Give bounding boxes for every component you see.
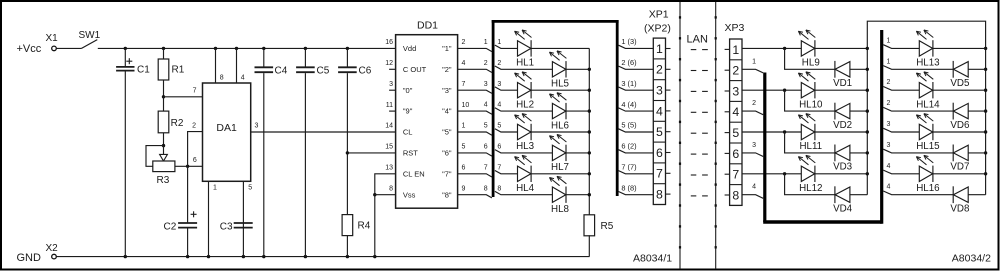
wire HL11 cathode to return bus (815, 131, 867, 133)
svg-text:5: 5 (656, 125, 663, 139)
svg-text:A8034/2: A8034/2 (952, 252, 991, 264)
XP3 pin 5 tick (725, 132, 730, 134)
svg-text:"8": "8" (442, 190, 452, 199)
svg-text:HL8: HL8 (551, 204, 570, 215)
resistor R1 top wire (163, 48, 165, 59)
svg-text:VD7: VD7 (950, 162, 969, 173)
wire VD6 anode to return bus (968, 110, 985, 112)
svg-text:8: 8 (389, 185, 393, 192)
wire DD1 pin 13 to pin 8 to GND (375, 174, 396, 257)
svg-text:VD6: VD6 (950, 120, 970, 131)
op IC DA1 box (203, 83, 251, 181)
wire VD3 anode to return bus (850, 152, 867, 154)
svg-text:2: 2 (656, 63, 663, 77)
svg-text:4: 4 (241, 75, 245, 82)
wire DD1 pin 9 to cable W1 wire 8 (458, 195, 492, 198)
link wire to VD2 (785, 90, 835, 111)
wire HL9 cathode to return bus (815, 47, 867, 49)
wire RST node to DD1 pin 15 (347, 152, 395, 154)
wire HL2 cathode to common bus (531, 89, 589, 91)
capacitor C6 (338, 66, 357, 68)
svg-text:C3: C3 (220, 222, 233, 233)
wire DD1 pin 6 to cable W1 wire 7 (458, 174, 492, 177)
wire VD5 anode to return bus (968, 68, 985, 70)
wire +Vcc rail SW1 to DD1 pin16 (98, 47, 396, 49)
svg-text:1: 1 (213, 185, 217, 192)
svg-text:C4: C4 (275, 66, 288, 77)
junction on GND rail (346, 255, 349, 258)
wire cable W1 to XP1 pin 4 (619, 108, 654, 111)
resistor R1 (158, 59, 169, 80)
junction on GND rail (124, 255, 127, 258)
junction on cathode bus (588, 151, 591, 154)
panel divider right of LAN column (chain line) (715, 2, 717, 269)
node HL12/VD4 split (783, 172, 786, 175)
svg-text:HL9: HL9 (802, 58, 820, 69)
DA1 pin 2 wire (188, 132, 203, 223)
XP1 pin 2 tick (666, 68, 671, 70)
wire DD1 pin 1 to cable W1 wire 5 (458, 132, 492, 135)
LED HL13 (916, 31, 926, 39)
XP1 cell divider (653, 58, 665, 60)
svg-text:1: 1 (484, 39, 488, 46)
junction on module2 return bus (984, 68, 987, 71)
XP3 cell divider (730, 142, 742, 144)
R3 wiper arrow (160, 154, 168, 161)
svg-text:HL7: HL7 (551, 162, 569, 173)
svg-text:VD8: VD8 (950, 204, 970, 215)
wire VD8 anode to return bus (968, 194, 985, 196)
svg-text:5: 5 (484, 123, 488, 130)
svg-text:4: 4 (887, 184, 891, 191)
svg-text:8: 8 (484, 185, 488, 192)
XP1 cell divider (653, 183, 665, 185)
XP1 pin 3 tick (666, 89, 671, 91)
junction on +Vcc rail at DA1 pin8 (214, 47, 217, 50)
wire HL3 cathode to common bus (531, 131, 589, 133)
node Vss/CLEN (373, 193, 376, 196)
junction on module1 return bus (866, 172, 869, 175)
svg-text:HL6: HL6 (551, 120, 570, 131)
cable W2 wire 1 exit to VD5 (883, 66, 953, 70)
junction on module1 return bus (866, 151, 869, 154)
wire DD1 pin 2 to cable W1 wire 1 (458, 48, 492, 51)
svg-text:8: 8 (732, 188, 739, 202)
cable W1 wire 4 exit to LED HL7 (495, 108, 553, 111)
wire DD1 pin 4 to cable W1 wire 2 (458, 69, 492, 72)
diode VD4 (834, 186, 836, 203)
svg-text:6 (2): 6 (2) (621, 142, 636, 151)
svg-text:DA1: DA1 (216, 122, 237, 134)
cable W1 wire 5 exit to LED HL5 (495, 129, 518, 132)
XP1 pin 4 tick (666, 110, 671, 112)
wire cable W1 to XP1 pin 3 (619, 87, 654, 90)
node RST / C6 / R4 (346, 151, 349, 154)
svg-text:(XP2): (XP2) (644, 23, 671, 35)
resistor R2 bottom wire (163, 133, 165, 146)
svg-text:XP1: XP1 (649, 9, 669, 21)
svg-text:HL1: HL1 (516, 58, 534, 69)
svg-text:+Vcc: +Vcc (17, 43, 42, 55)
wire DD1 pin 5 to cable W1 wire 6 (458, 153, 492, 156)
svg-text:VD3: VD3 (833, 162, 853, 173)
DD1 pin 3 NC stub (389, 89, 396, 91)
XP3 pin 3 tick (725, 90, 730, 92)
LED HL3 (515, 115, 525, 123)
cable W2 wire 3 exit to VD7 (883, 149, 953, 153)
svg-text:15: 15 (385, 144, 393, 151)
cable bundle W2 bottom run (763, 220, 882, 223)
svg-text:16: 16 (385, 39, 393, 46)
LED HL8 (550, 178, 560, 186)
resistor R1 bottom wire (163, 80, 165, 97)
XP3 pin 4 tick (725, 111, 730, 113)
wire XP3 pin 6 to cable W2 wire 3 (742, 153, 763, 157)
svg-text:11: 11 (386, 102, 393, 109)
diode VD5 (952, 61, 954, 78)
XP3 cell divider (730, 80, 742, 82)
wire R3 to DA1 pin 6 (175, 165, 203, 167)
junction on module1 return bus (866, 89, 869, 92)
svg-text:"0": "0" (403, 86, 413, 95)
capacitor C5 bottom wire (304, 73, 306, 257)
LAN cable dashed wire 6 (691, 153, 697, 155)
svg-text:2: 2 (192, 122, 196, 129)
DA1 pin 4 stub (236, 48, 238, 83)
svg-text:VD2: VD2 (833, 120, 852, 131)
terminal X2 (52, 254, 57, 259)
wire X1 to SW1 (57, 47, 82, 49)
junction on cathode bus (588, 172, 591, 175)
svg-text:C1: C1 (137, 65, 150, 76)
svg-text:R4: R4 (358, 221, 371, 232)
svg-text:8: 8 (497, 185, 501, 192)
svg-text:6: 6 (193, 157, 197, 164)
svg-text:6: 6 (497, 144, 501, 151)
svg-text:VD5: VD5 (950, 78, 970, 89)
capacitor C1 top wire (124, 48, 126, 67)
common cathode bus wire (588, 48, 590, 214)
junction on module1 return bus (866, 47, 869, 50)
node R1/R2/pin7 (162, 95, 165, 98)
svg-text:HL4: HL4 (516, 183, 535, 194)
svg-text:3: 3 (887, 142, 891, 149)
XP1 pin 1 tick (666, 48, 671, 50)
connector XP3 body (730, 39, 742, 205)
svg-text:2: 2 (887, 79, 891, 86)
svg-text:1: 1 (656, 42, 663, 56)
svg-text:C2: C2 (164, 222, 177, 233)
wire XP3 pin 3 to HL10 (742, 89, 801, 91)
XP1 pin 6 tick (666, 152, 671, 154)
diode VD6 (952, 103, 954, 120)
svg-text:"3": "3" (442, 86, 452, 95)
diode VD8 (952, 186, 954, 203)
svg-text:3: 3 (752, 142, 756, 149)
XP3 pin 1 tick (725, 48, 730, 50)
svg-text:R3: R3 (157, 175, 170, 186)
svg-text:1: 1 (497, 39, 501, 46)
cable W2 wire 4 exit to HL16 (883, 170, 919, 174)
svg-text:"1": "1" (442, 44, 452, 53)
capacitor C4 bottom wire (263, 73, 265, 257)
DA1 pin 8 stub (215, 48, 217, 83)
svg-text:5: 5 (732, 126, 739, 140)
wire HL12 cathode to return bus (815, 173, 867, 175)
svg-text:2: 2 (497, 60, 501, 67)
wire cable W1 to XP1 pin 1 (619, 45, 654, 48)
svg-text:3: 3 (887, 121, 891, 128)
svg-text:C OUT: C OUT (403, 65, 427, 74)
wire cable W1 to XP1 pin 6 (619, 150, 654, 153)
wire DA1 pin 3 to DD1 pin 14 (251, 131, 396, 133)
XP3 cell divider (730, 59, 742, 61)
XP1 cell divider (653, 79, 665, 81)
junction on +Vcc rail at R1 (162, 47, 165, 50)
return bus wire module1 to module2 (867, 21, 985, 195)
junction on +Vcc rail at DA1 pin4 (235, 47, 238, 50)
svg-text:3: 3 (497, 81, 501, 88)
junction on GND rail (186, 255, 189, 258)
wire HL16 cathode to return bus (933, 173, 986, 175)
LAN cable dashed wire 7 (691, 174, 697, 176)
svg-text:LAN: LAN (687, 34, 708, 46)
svg-text:X2: X2 (46, 243, 59, 254)
junction on +Vcc rail at C5 (304, 47, 307, 50)
junction on GND rail (207, 255, 210, 258)
svg-text:HL10: HL10 (799, 99, 823, 110)
svg-text:"5": "5" (442, 128, 452, 137)
wire HL8 cathode to common bus (566, 194, 590, 196)
capacitor C2 bottom wire (187, 229, 189, 257)
svg-text:C6: C6 (359, 66, 372, 77)
cable W1 wire 8 exit to LED HL11 (495, 191, 553, 194)
LAN cable dashed wire 2 (691, 70, 697, 72)
cable bundle W2 left run (763, 73, 766, 223)
junction on module2 return bus (984, 151, 987, 154)
panel divider left of LAN column (chain line) (679, 2, 681, 269)
svg-text:4: 4 (752, 184, 756, 191)
diode VD2 (834, 103, 836, 120)
svg-text:2: 2 (752, 100, 756, 107)
svg-text:4 (4): 4 (4) (621, 100, 636, 109)
DA1 pin 1 wire to GND (208, 181, 210, 256)
LED HL16 (916, 157, 926, 165)
cable W2 wire 1 exit to HL13 (883, 45, 919, 49)
junction on GND rail (242, 255, 245, 258)
svg-text:3: 3 (732, 84, 739, 98)
wire cable W1 to XP1 pin 5 (619, 129, 654, 132)
svg-text:"6": "6" (442, 149, 452, 158)
svg-text:10: 10 (462, 102, 470, 109)
junction on module1 return bus (866, 130, 869, 133)
wire XP3 pin 2 to cable W2 wire 1 (742, 69, 763, 73)
svg-text:CL EN: CL EN (403, 169, 425, 178)
capacitor C6 top wire (346, 48, 348, 67)
node HL10/VD2 split (783, 89, 786, 92)
capacitor C2 polarity + (191, 213, 197, 215)
LED HL1 (515, 31, 525, 39)
wire cable W1 to XP1 pin 7 (619, 171, 654, 174)
svg-text:RST: RST (403, 149, 418, 158)
svg-text:3: 3 (484, 81, 488, 88)
svg-text:3: 3 (255, 122, 259, 129)
LED HL14 (916, 73, 926, 81)
svg-text:HL3: HL3 (516, 141, 535, 152)
svg-text:HL16: HL16 (916, 183, 940, 194)
LED HL7 (550, 136, 560, 144)
capacitor C2 (178, 222, 197, 224)
svg-text:GND: GND (17, 252, 42, 264)
svg-text:HL15: HL15 (916, 141, 940, 152)
wire VD4 anode to return bus (850, 194, 867, 196)
wire HL1 cathode to common bus (531, 47, 589, 49)
cable W1 wire 1 exit to LED HL1 (495, 45, 518, 48)
svg-text:6: 6 (484, 144, 488, 151)
svg-text:8: 8 (220, 75, 224, 82)
XP3 pin 2 tick (725, 69, 730, 71)
link wire to VD4 (785, 174, 835, 195)
svg-text:1: 1 (462, 123, 466, 130)
svg-text:13: 13 (385, 165, 393, 172)
svg-text:3: 3 (389, 81, 393, 88)
LED HL6 (550, 94, 560, 102)
svg-text:4: 4 (497, 102, 501, 109)
svg-text:2: 2 (732, 64, 739, 78)
wire VD1 anode to return bus (850, 68, 867, 70)
XP1 pin 8 tick (666, 193, 671, 195)
svg-text:HL5: HL5 (551, 79, 570, 90)
svg-text:"9": "9" (403, 107, 413, 116)
XP1 cell divider (653, 100, 665, 102)
XP3 cell divider (730, 184, 742, 186)
resistor R4 (342, 215, 353, 236)
wire DD1 pin 10 to cable W1 wire 4 (458, 111, 492, 114)
svg-text:HL13: HL13 (916, 58, 940, 69)
wire HL4 cathode to common bus (531, 173, 589, 175)
wire to DA1 pin 7 (164, 96, 203, 98)
svg-text:DD1: DD1 (417, 20, 438, 32)
XP1 pin 7 tick (666, 172, 671, 174)
svg-text:"4": "4" (442, 107, 452, 116)
svg-text:VD1: VD1 (833, 78, 852, 89)
svg-text:HL2: HL2 (516, 99, 534, 110)
junction on module2 return bus (984, 89, 987, 92)
wire HL15 cathode to return bus (933, 131, 986, 133)
capacitor C4 (255, 66, 274, 68)
svg-text:5: 5 (497, 123, 501, 130)
svg-text:5: 5 (462, 144, 466, 151)
DD1 pin 11 NC stub (389, 110, 396, 112)
resistor R2 top wire (163, 97, 165, 111)
XP3 cell divider (730, 163, 742, 165)
svg-text:9: 9 (462, 185, 466, 192)
cable W2 wire 3 exit to HL15 (883, 128, 919, 132)
wire HL6 cathode to common bus (566, 110, 590, 112)
XP3 cell divider (730, 121, 742, 123)
switch SW1 blade (82, 40, 98, 49)
svg-text:5 (5): 5 (5) (621, 121, 636, 130)
svg-text:HL14: HL14 (916, 99, 940, 110)
junction on +Vcc rail at C4 (262, 47, 265, 50)
junction on cathode bus (588, 89, 591, 92)
wire XP3 pin 5 to HL11 (742, 131, 801, 133)
cable W2 wire 2 exit to VD6 (883, 107, 953, 111)
wire XP3 pin 4 to cable W2 wire 2 (742, 111, 763, 115)
junction on GND rail (373, 255, 376, 258)
capacitor C6 bottom wire to RST node (346, 73, 348, 215)
svg-text:4: 4 (484, 102, 488, 109)
capacitor C4 top wire (263, 48, 265, 67)
svg-text:8 (8): 8 (8) (621, 183, 636, 192)
cable W1 wire 7 exit to LED HL7 (495, 171, 518, 174)
svg-text:XP3: XP3 (725, 22, 745, 34)
GND rail wire (57, 256, 590, 258)
capacitor C5 top wire (304, 48, 306, 67)
svg-text:8: 8 (656, 188, 663, 202)
node HL11/VD3 split (783, 130, 786, 133)
LED HL11 (798, 115, 808, 123)
XP3 pin 7 tick (725, 173, 730, 175)
LED HL5 (550, 52, 560, 60)
svg-text:7: 7 (497, 164, 501, 171)
terminal X1 (52, 46, 57, 51)
LAN cable dashed wire 1 (691, 49, 697, 51)
svg-text:2: 2 (484, 60, 488, 67)
connector XP1 body (653, 38, 665, 204)
junction on GND rail (304, 255, 307, 258)
node HL9/VD1 split (783, 47, 786, 50)
wire cable W1 to XP1 pin 2 (619, 66, 654, 69)
LED HL2 (515, 73, 525, 81)
svg-text:4: 4 (462, 60, 466, 67)
svg-text:HL11: HL11 (799, 141, 822, 152)
capacitor C3 (234, 222, 253, 224)
cable W1 wire 3 exit to LED HL3 (495, 87, 518, 90)
cable W2 wire 2 exit to HL14 (883, 87, 919, 91)
counter IC DD1 box (396, 35, 458, 209)
svg-text:6: 6 (732, 147, 739, 161)
svg-text:7 (7): 7 (7) (621, 163, 636, 172)
svg-text:2: 2 (887, 100, 891, 107)
XP3 pin 6 tick (725, 152, 730, 154)
svg-text:Vss: Vss (403, 190, 416, 199)
cable W1 wire 2 exit to LED HL5 (495, 66, 553, 69)
resistor R5 (584, 215, 595, 236)
XP3 cell divider (730, 100, 742, 102)
svg-text:1: 1 (887, 37, 891, 44)
svg-text:"2": "2" (442, 65, 452, 74)
resistor R5 bottom wire (588, 235, 590, 256)
diode VD1 (834, 61, 836, 78)
LAN cable dashed wire 5 (691, 132, 697, 134)
svg-text:2: 2 (462, 39, 466, 46)
junction on GND rail (262, 255, 265, 258)
capacitor C1 bottom wire (124, 72, 126, 257)
wire HL13 cathode to return bus (933, 47, 986, 49)
XP3 pin 8 tick (725, 194, 730, 196)
wire HL7 cathode to common bus (566, 152, 590, 154)
cable bundle W1 left run (492, 20, 495, 197)
LED HL4 (515, 157, 525, 165)
LED HL12 (798, 157, 808, 165)
svg-text:HL12: HL12 (799, 183, 822, 194)
svg-text:R5: R5 (601, 221, 614, 232)
XP1 cell divider (653, 162, 665, 164)
XP1 cell divider (653, 141, 665, 143)
svg-text:6: 6 (462, 165, 466, 172)
svg-text:SW1: SW1 (79, 30, 101, 41)
